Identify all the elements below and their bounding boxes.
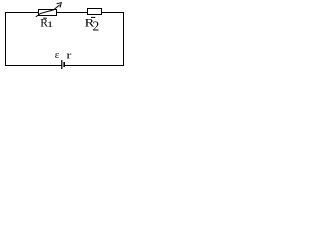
wire left — [5, 12, 7, 66]
wire bottom-left — [5, 65, 62, 67]
svg-text:2: 2 — [93, 18, 100, 33]
svg-text:ε: ε — [55, 49, 60, 61]
svg-text:1: 1 — [47, 20, 54, 29]
wire right — [123, 12, 125, 66]
mark under R1 — [43, 18, 47, 19]
arrow of rheostat R1 — [36, 5, 60, 17]
resistor R2 — [88, 9, 102, 15]
battery cell: short thick plate — [63, 62, 65, 67]
label r (internal resistance) — [66, 48, 72, 61]
svg-text:r: r — [66, 48, 72, 61]
mark under R2 — [91, 17, 95, 18]
wire bottom-right — [65, 65, 124, 67]
wire top — [5, 12, 124, 14]
battery cell: long plate — [61, 60, 62, 69]
label R2 — [85, 16, 95, 29]
resistor R1 (rheostat body) — [39, 10, 57, 16]
